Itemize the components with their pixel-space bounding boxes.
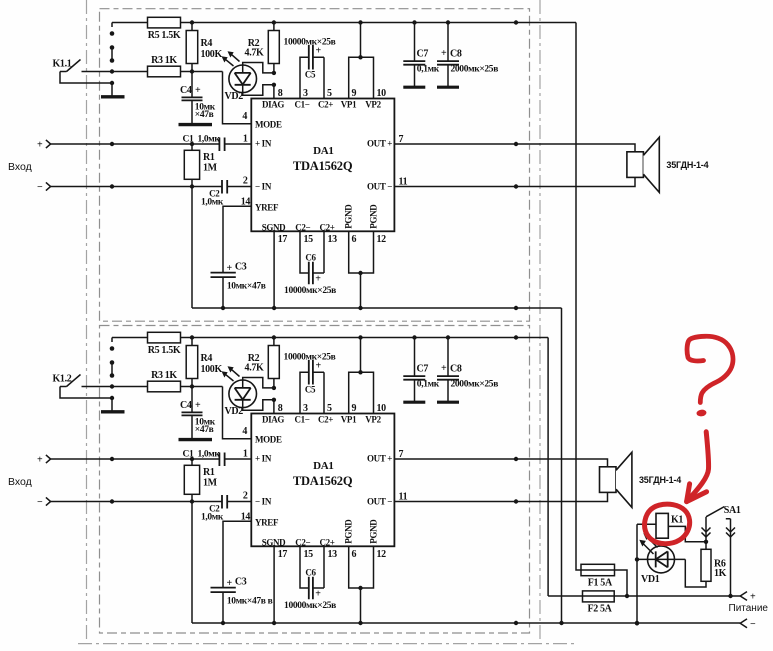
svg-text:+ IN: + IN [255,138,272,148]
resistor R3 1K (ch1) [148,55,223,77]
svg-text:1,0мк: 1,0мк [201,512,224,522]
svg-text:F2 5A: F2 5A [587,603,612,614]
svg-text:C1 1,0мк: C1 1,0мк [183,135,221,145]
svg-text:12: 12 [377,549,387,560]
svg-text:MODE: MODE [255,120,282,130]
svg-text:C2+: C2+ [319,537,334,547]
wire: ground bus (ch1) [192,306,562,310]
svg-text:2000мк×25в: 2000мк×25в [451,64,499,74]
svg-text:C4: C4 [180,400,192,411]
ground (C8) (ch1) [437,86,459,89]
LED VD2 (ch1) [222,51,257,102]
switch contact K1.2 [53,374,148,389]
svg-text:10000мк×25в: 10000мк×25в [284,37,336,47]
svg-text:0,1мк: 0,1мк [417,379,440,389]
svg-text:R5 1.5K: R5 1.5K [148,345,181,356]
svg-text:1M: 1M [203,478,218,489]
svg-text:Вход: Вход [8,476,32,488]
capacitor C7 0.1uF (ch2) [403,338,439,402]
resistor R2 4.7K (ch1) [245,23,280,73]
speaker BA 35GDN-1-4 (ch1) [627,137,709,192]
wire: input - to pin 2 (ch2) [51,499,252,503]
svg-text:10: 10 [377,88,387,99]
svg-text:C7: C7 [417,364,429,375]
wire: R1 node to ground bus (ch1) [191,187,193,309]
svg-text:− IN: − IN [255,496,272,506]
svg-text:13: 13 [328,549,338,560]
svg-text:9: 9 [352,403,357,414]
wire: R1 node to ground bus (ch2) [191,502,193,624]
resistor R5 1.5K (ch1) [148,17,181,41]
wire: ch1 ground bus down to - rail [561,308,563,623]
annotation: red arrow to K1 [687,432,709,502]
capacitor C1 1uF (ch2) [183,450,225,466]
svg-text:15: 15 [304,234,314,245]
svg-text:35ГДН-1-4: 35ГДН-1-4 [639,475,681,485]
resistor R4 100K (ch2) [186,338,222,387]
svg-text:+: + [195,85,201,96]
resistor R1 1M (ch1) [184,144,217,187]
svg-text:YREF: YREF [255,203,279,213]
wire: PGND pins 6/12 to ground bus (ch2) [349,546,374,623]
svg-text:OUT +: OUT + [367,453,392,463]
svg-text:R5 1.5K: R5 1.5K [148,30,181,41]
capacitor C3 10uF (ch1) [211,261,266,308]
wire: YREF pin 14 (ch2) [223,521,251,587]
capacitor C8 2000uF (ch1) [437,23,498,87]
wire: OUT+ pin 7 to speaker (ch1) [394,142,635,152]
svg-text:1M: 1M [203,163,218,174]
wire: K1 left to - rail column [635,524,656,625]
frame: channel 2 dashed box [100,326,530,634]
wire: ch2 +V bus down to F2 [547,338,549,597]
svg-text:SGND: SGND [262,222,286,232]
wire: VP1/VP2 supply (ch1) [349,23,374,99]
svg-text:+: + [441,363,447,374]
capacitor C2 1uF (ch2) [201,495,227,522]
svg-text:DIAG: DIAG [262,415,284,425]
svg-text:10: 10 [377,403,387,414]
wire: R3 node to MODE pin 4 (ch1) [223,72,252,124]
node input - terminal (ch2) [37,497,51,508]
svg-text:PGND: PGND [369,519,379,544]
resistor R6 1K [701,542,727,582]
svg-text:1K: 1K [714,568,727,579]
svg-text:C2+: C2+ [318,100,333,110]
wire: SGND pin 17 to ground bus (ch2) [273,546,275,623]
wire: VD2 cathode to DIAG pin 8 (ch2) [243,398,276,414]
svg-text:VD2: VD2 [225,406,244,417]
capacitor C5 10000uF (ch2) [284,352,336,413]
node input + terminal (ch1) [37,139,51,150]
svg-text:6: 6 [352,234,357,245]
ground (C7) (ch2) [403,401,425,404]
svg-text:OUT −: OUT − [367,181,392,191]
svg-text:SGND: SGND [262,537,286,547]
wire: OUT+ pin 7 to speaker (ch2) [394,457,607,467]
ground (C4) (ch1) [179,123,213,126]
svg-text:PGND: PGND [344,519,354,544]
LED VD2 (ch2) [222,366,257,417]
svg-text:4: 4 [242,111,247,122]
svg-text:2: 2 [243,176,248,187]
svg-text:10мк×47в в: 10мк×47в в [227,597,273,607]
svg-text:−: − [37,182,43,193]
svg-text:2000мк×25в: 2000мк×25в [451,379,499,389]
svg-text:C1−: C1− [294,100,309,110]
svg-text:−: − [37,497,43,508]
svg-text:2: 2 [243,491,248,502]
svg-text:R1: R1 [203,467,215,478]
wire: R3 node to MODE pin 4 (ch2) [223,387,252,439]
svg-text:R4: R4 [201,353,213,364]
svg-text:+: + [227,578,233,589]
ground (C4) (ch2) [179,438,213,441]
wire: ch1 +V bus down to F1 [576,23,581,571]
wire: input + to pin 1 (ch1) [51,142,252,146]
svg-text:1: 1 [243,449,248,460]
capacitor C3 10uF (ch2) [211,576,273,623]
svg-text:+: + [750,592,756,603]
ground (switch K1.1) [60,72,125,97]
svg-text:TDA1562Q: TDA1562Q [293,474,353,488]
svg-text:100K: 100K [201,364,223,375]
resistor R5 1.5K (ch2) [148,332,181,356]
svg-text:DA1: DA1 [313,145,333,157]
svg-text:C6: C6 [305,253,316,263]
annotation: red question mark [687,336,733,417]
relay coil K1 [656,513,683,538]
svg-text:R1: R1 [203,152,215,163]
svg-text:8: 8 [278,403,283,414]
wire: F1 to + rail [615,570,630,598]
svg-text:4.7K: 4.7K [245,362,264,373]
LED VD1 [637,533,685,585]
wire: K1 right to R6 top node [668,526,708,544]
svg-text:VP1: VP1 [341,100,357,110]
op-amp IC DA1 TDA1562Q (ch2) [251,414,394,548]
resistor R1 1M (ch2) [184,459,217,502]
svg-text:17: 17 [278,549,288,560]
wire: +V rail (ch2) [112,335,548,339]
svg-text:×47в: ×47в [195,110,214,120]
capacitor C1 1uF (ch1) [183,135,225,151]
svg-text:F1 5A: F1 5A [588,578,613,589]
wire: +V rail (ch1) [112,20,576,24]
ground (C8) (ch2) [437,401,459,404]
svg-text:OUT −: OUT − [367,496,392,506]
svg-text:+: + [227,263,233,274]
wire: VD2 anode to R2 (ch1) [243,63,276,76]
svg-text:6: 6 [352,549,357,560]
svg-text:YREF: YREF [255,518,279,528]
svg-text:3: 3 [303,403,308,414]
ground (switch K1.2) [60,387,125,412]
wire: YREF pin 14 (ch1) [223,206,251,272]
svg-text:+: + [315,589,321,600]
svg-text:12: 12 [377,234,387,245]
resistor R3 1K (ch2) [148,370,223,392]
svg-text:SA1: SA1 [724,505,741,516]
svg-text:C2+: C2+ [318,415,333,425]
svg-text:3: 3 [303,88,308,99]
svg-text:C8: C8 [450,49,462,60]
wire: input - to pin 2 (ch1) [51,184,252,188]
svg-text:VP1: VP1 [341,415,357,425]
svg-text:K1.1: K1.1 [53,59,72,70]
svg-text:C5: C5 [305,69,316,79]
svg-text:C8: C8 [450,364,462,375]
svg-text:+ IN: + IN [255,453,272,463]
svg-text:1: 1 [243,134,248,145]
svg-text:C4: C4 [180,85,192,96]
svg-text:5: 5 [327,88,332,99]
svg-text:4.7K: 4.7K [245,47,264,58]
switch SA1 [702,505,741,596]
svg-text:K1: K1 [671,515,683,526]
svg-text:−: − [750,619,756,630]
svg-text:VD2: VD2 [225,91,244,102]
capacitor C6 10000uF (ch2) [284,546,336,611]
svg-text:17: 17 [278,234,288,245]
wire: VP1/VP2 supply (ch2) [349,338,374,414]
svg-text:R3 1K: R3 1K [151,370,177,381]
pin numbers DA1 (ch2) [241,403,408,560]
svg-text:10000мк×25в: 10000мк×25в [284,286,336,296]
frame: outer dash-dot box [78,0,575,644]
svg-text:DA1: DA1 [313,460,333,472]
wire: VD2 anode to R2 (ch2) [243,378,276,391]
wire: VD2 cathode to DIAG pin 8 (ch1) [243,83,276,99]
frame: channel 1 dashed box [100,9,530,322]
fuse F1 5A [581,564,615,588]
svg-text:C3: C3 [235,261,247,272]
svg-text:35ГДН-1-4: 35ГДН-1-4 [666,160,708,170]
capacitor C5 10000uF (ch1) [284,37,336,98]
speaker BA 35GDN-1-4 (ch2) [600,452,682,507]
svg-text:8: 8 [278,88,283,99]
wire: OUT- pin 11 to speaker (ch2) [394,492,607,503]
svg-text:C2+: C2+ [319,222,334,232]
node + supply terminal [740,592,756,603]
svg-text:VP2: VP2 [365,415,381,425]
svg-text:PGND: PGND [369,204,379,229]
svg-text:100K: 100K [201,49,223,60]
wire: ground bus (ch2) [192,621,740,625]
svg-text:TDA1562Q: TDA1562Q [293,159,353,173]
svg-text:9: 9 [352,88,357,99]
svg-text:1,0мк: 1,0мк [201,197,224,207]
svg-text:5: 5 [327,403,332,414]
svg-text:13: 13 [328,234,338,245]
capacitor C4 10uF (ch2) [180,387,216,440]
node input + terminal (ch2) [37,454,51,465]
svg-text:C7: C7 [417,49,429,60]
svg-text:+: + [315,274,321,285]
wire: PGND pins 6/12 to ground bus (ch1) [349,231,374,308]
op-amp IC DA1 TDA1562Q (ch1) [251,99,394,233]
resistor R2 4.7K (ch2) [245,338,280,388]
wire: input + to pin 1 (ch2) [51,457,252,461]
svg-text:Вход: Вход [8,161,32,173]
capacitor C6 10000uF (ch1) [284,231,336,295]
svg-text:+: + [195,400,201,411]
ground (C7) (ch1) [403,86,425,89]
svg-text:C5: C5 [305,384,316,394]
svg-text:K1.2: K1.2 [53,374,72,385]
fuse F2 5A [583,591,615,614]
wire: + power rail [548,594,740,598]
svg-text:C3: C3 [235,576,247,587]
switch contact K1.1 [53,59,148,74]
svg-text:MODE: MODE [255,435,282,445]
node - supply terminal [740,619,756,630]
svg-text:×47в: ×47в [195,425,214,435]
svg-text:+: + [37,139,43,150]
resistor R4 100K (ch1) [186,23,222,72]
pin numbers DA1 (ch1) [241,88,408,245]
capacitor C2 1uF (ch1) [201,180,227,207]
wire: OUT- pin 11 to speaker (ch1) [394,177,635,188]
svg-text:OUT +: OUT + [367,138,392,148]
svg-text:15: 15 [304,549,314,560]
capacitor C7 0.1uF (ch1) [403,23,439,87]
svg-text:PGND: PGND [344,204,354,229]
svg-text:10мк×47в: 10мк×47в [227,282,266,292]
annotation: red circle around K1 [645,504,690,544]
svg-text:10000мк×25в: 10000мк×25в [284,352,336,362]
capacitor C8 2000uF (ch2) [437,338,498,402]
wire: dotted link rail-to-switch (ch2) [110,338,115,378]
svg-text:VD1: VD1 [641,574,660,585]
svg-text:10000мк×25в: 10000мк×25в [284,601,336,611]
svg-text:R3 1K: R3 1K [151,55,177,66]
svg-text:Питание: Питание [729,603,769,614]
svg-text:R4: R4 [201,38,213,49]
svg-text:C1 1,0мк: C1 1,0мк [183,450,221,460]
node input - terminal (ch1) [37,182,51,193]
capacitor C4 10uF (ch1) [180,72,216,125]
svg-text:DIAG: DIAG [262,100,284,110]
svg-text:C6: C6 [305,568,316,578]
svg-text:− IN: − IN [255,181,272,191]
svg-text:C2−: C2− [295,537,310,547]
wire: VD1 anode to R6 bottom [685,559,706,587]
svg-text:C1−: C1− [294,415,309,425]
svg-text:VP2: VP2 [365,100,381,110]
svg-text:+: + [37,454,43,465]
wire: dotted link rail-to-switch (ch1) [110,23,115,63]
svg-text:+: + [441,48,447,59]
svg-text:4: 4 [242,426,247,437]
svg-text:C2−: C2− [295,222,310,232]
svg-text:0,1мк: 0,1мк [417,64,440,74]
wire: SGND pin 17 to ground bus (ch1) [273,231,275,308]
